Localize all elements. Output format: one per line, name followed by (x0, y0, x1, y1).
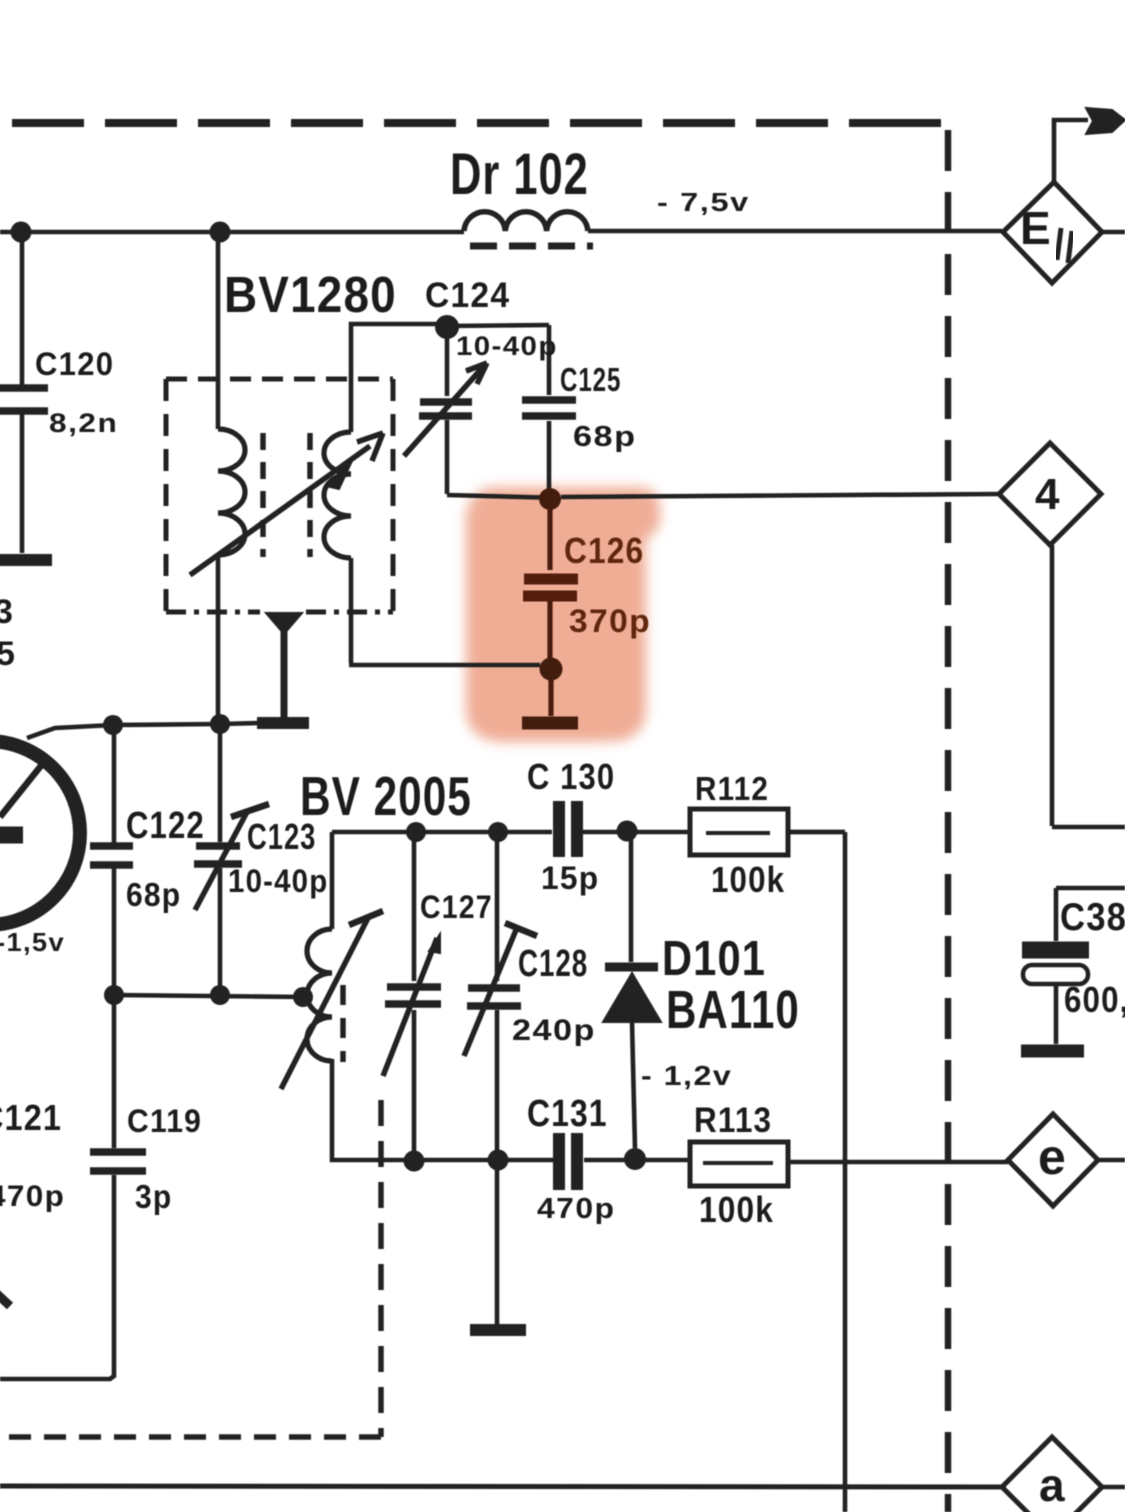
junction dot node base/C122 (103, 715, 123, 735)
capacitor C120 bottom lead (20, 414, 25, 553)
svg-text:C128: C128 (518, 943, 588, 985)
capacitor C38 negative plate (hollow) (1023, 965, 1088, 984)
junction dot C122 bottom (104, 985, 124, 1005)
svg-text:5: 5 (0, 635, 16, 673)
trimmer C128 arrow (464, 930, 516, 1056)
diode D101 bottom lead (632, 1022, 635, 1148)
capacitor C126 bottom lead (highlighted) (547, 601, 552, 660)
trimmer C127 leads (412, 832, 417, 1160)
svg-text:C121: C121 (0, 1098, 62, 1138)
connector diamond E (1003, 182, 1102, 283)
junction dot C127 bottom (404, 1151, 425, 1172)
variable-inductor arrow through BV1280 (190, 446, 370, 575)
capacitor C122 plates (90, 846, 133, 865)
svg-text:C126: C126 (564, 531, 644, 571)
junction dot C128 top (488, 822, 508, 842)
svg-text:- 1,2v: - 1,2v (641, 1061, 732, 1092)
terminal stub below C126 (highlighted) (548, 680, 553, 716)
svg-text:-1,5v: -1,5v (0, 928, 65, 957)
capacitor C122 bottom lead (112, 868, 117, 995)
diode D101 top lead (629, 831, 634, 962)
svg-text:C131: C131 (527, 1092, 608, 1134)
dashed chassis/frame line top (12, 119, 940, 127)
trimmer C127 plates (385, 987, 441, 1004)
wire BV1280 secondary bottom lead to C126 node (349, 558, 540, 665)
highlight marker blob around C126 (466, 487, 660, 742)
svg-text:BV1280: BV1280 (224, 267, 397, 324)
trimmer C124 arrow (404, 368, 482, 456)
trimmer C124 node dot (435, 315, 459, 339)
junction dot C123 bottom (210, 985, 230, 1005)
capacitor C120 plates (0, 388, 48, 411)
vertical bus wire right of R112 (843, 832, 848, 1512)
svg-text:C120: C120 (35, 346, 114, 383)
svg-text:C125: C125 (560, 362, 621, 399)
inductor BV1280 secondary winding (324, 432, 351, 558)
wire stub right of e (1098, 1158, 1125, 1163)
terminal bar below C126 (highlighted) (522, 717, 578, 730)
svg-text:C38: C38 (1060, 895, 1125, 938)
svg-text:C123: C123 (247, 816, 316, 857)
svg-text:3: 3 (0, 593, 14, 631)
junction dot coil tap (293, 987, 313, 1007)
dashed shield box BV1280 (166, 377, 393, 382)
diode D101 anode triangle (603, 973, 661, 1022)
BV2005 oscillator left lead top (330, 832, 335, 929)
wire bottom row C131/R113 left (332, 1158, 690, 1160)
junction dot C127 top (406, 822, 426, 842)
capacitor C119 leads (0, 995, 114, 1379)
svg-text:R112: R112 (695, 771, 769, 808)
svg-text:E: E (1020, 202, 1052, 254)
dashed box BV2005 right edge (378, 1100, 384, 1437)
capacitor C119 plates (90, 1152, 146, 1171)
transistor T (partial at left edge) (0, 741, 80, 925)
inductor BV2005 oscillator winding (307, 929, 332, 1061)
svg-text:240p: 240p (512, 1013, 596, 1047)
wire stub right of a (1102, 1485, 1125, 1490)
wire oscillator top rail (332, 830, 845, 835)
BV2005 oscillator left lead bottom (330, 1059, 335, 1158)
resistor R112 body (690, 809, 788, 855)
junction dot node -7,5v / C120 (11, 222, 32, 243)
arrow pointing right (to next sheet) (1086, 108, 1125, 134)
wire transistor to base node row (27, 725, 113, 738)
diode D101 cathode bar (605, 963, 658, 972)
junction dot C125/C126 node (highlighted) (539, 488, 561, 510)
trimmer C124 plates (419, 402, 472, 416)
wire base row to C123 node (113, 723, 258, 725)
inductor Dr102 (464, 212, 588, 231)
svg-text:Dr 102: Dr 102 (450, 142, 589, 206)
svg-text:10-40p: 10-40p (228, 863, 328, 899)
wire -7,5v rail right segment to connector E (588, 229, 1002, 234)
junction dot C128 bottom (488, 1150, 509, 1171)
wire -7,5v rail left segment (0, 230, 464, 235)
variable core arrow through oscillator coil (281, 918, 368, 1089)
capacitor C120 top lead (20, 232, 25, 385)
long wire bottom rail (0, 1486, 1006, 1487)
cut mark left edge (0, 1293, 10, 1306)
junction dot C126 bottom node (highlighted) (540, 658, 563, 681)
Dr102 core dashed line (470, 243, 593, 250)
capacitor C125 plates (522, 400, 576, 416)
svg-text:a: a (1039, 1459, 1066, 1511)
junction dot node -7,5v / BV1280 primary (210, 222, 231, 243)
capacitor C126 plates (highlighted) (523, 579, 578, 596)
ground symbol inside BV1280 box (266, 613, 302, 634)
capacitor C38 bottom lead (1054, 984, 1059, 1044)
wire stub right of E (1102, 230, 1125, 235)
trimmer C124 bottom lead (445, 420, 450, 494)
svg-text:3p: 3p (135, 1178, 172, 1216)
svg-text:C124: C124 (425, 276, 510, 315)
svg-text:600,: 600, (1064, 980, 1125, 1021)
capacitor C126 top lead (highlighted) (547, 508, 552, 570)
terminal bar below C120 (0, 554, 52, 566)
connector diamond a (partial) (1002, 1437, 1102, 1512)
wire lower row to oscillator coil tap (114, 995, 304, 997)
svg-text:470p: 470p (537, 1192, 615, 1224)
svg-text:e: e (1038, 1129, 1067, 1185)
trimmer C127 arrow (383, 938, 437, 1076)
svg-text:- 7,5v: - 7,5v (657, 188, 750, 217)
core dashed line next to oscillator coil (340, 985, 346, 1062)
svg-text:4: 4 (1035, 470, 1061, 519)
wire C128 below to terminal (495, 1160, 500, 1326)
wire BV1280 primary bottom lead (216, 555, 221, 724)
svg-text:68p: 68p (573, 419, 637, 452)
trimmer C123 bottom lead (218, 868, 223, 995)
capacitor C122 top lead (112, 725, 117, 843)
connector diamond e (1008, 1114, 1098, 1206)
wire R112 to vertical bus (788, 830, 845, 835)
svg-text:100k: 100k (711, 860, 785, 901)
wire C124 node to C125 corner (447, 325, 549, 326)
svg-text:370p: 370p (569, 603, 651, 639)
resistor R113 body (690, 1142, 788, 1186)
junction dot node base/C123 (210, 714, 230, 734)
capacitor C131 plates (559, 1133, 577, 1190)
junction dot D101/R113 node (624, 1148, 646, 1170)
wire C38 top lead from right edge (1056, 888, 1125, 941)
wire from diamond 4 down and right (1052, 545, 1125, 827)
svg-text:BV 2005: BV 2005 (300, 767, 472, 828)
svg-text:68p: 68p (126, 876, 181, 914)
svg-text:C119: C119 (127, 1103, 202, 1139)
svg-text:C122: C122 (126, 805, 205, 847)
trimmer C128 leads (495, 832, 500, 1160)
wire BV1280 primary top lead (216, 232, 221, 429)
trimmer C123 top lead (218, 724, 223, 842)
svg-text:8,2n: 8,2n (49, 408, 118, 438)
connector diamond 4 (999, 443, 1101, 545)
trimmer C123 arrow (195, 812, 247, 910)
dashed chassis/frame line right vertical (945, 130, 952, 1512)
svg-text:BA110: BA110 (666, 980, 800, 1040)
svg-text:10-40p: 10-40p (456, 330, 558, 361)
transformer core dashed lines (263, 433, 310, 557)
capacitor C130 plates (559, 801, 577, 857)
trimmer C128 plates (467, 988, 521, 1006)
dashed box BV2005 bottom edge (0, 1434, 381, 1440)
wire from E top to arrow (1054, 120, 1088, 184)
svg-text:C127: C127 (420, 891, 493, 926)
trimmer C123 plates (194, 846, 242, 864)
terminal bar below C128 (470, 1324, 526, 1336)
terminal bar below C38 (1021, 1045, 1084, 1058)
capacitor C38 positive plate (1022, 942, 1089, 959)
trimmer C124 top lead (445, 330, 450, 396)
svg-text:100k: 100k (699, 1190, 774, 1230)
connector E subscript bars (1057, 228, 1072, 263)
capacitor C125 bottom lead (547, 421, 552, 489)
wire node 4 row (447, 494, 999, 498)
wire R113 to connector e (788, 1160, 1008, 1165)
wire BV1280 secondary top lead to C124 node (351, 324, 436, 432)
svg-text:C 130: C 130 (527, 758, 615, 798)
svg-text:15p: 15p (541, 860, 599, 896)
junction dot D101 top (617, 821, 638, 842)
svg-text:470p: 470p (0, 1179, 65, 1213)
svg-text:R113: R113 (694, 1102, 772, 1141)
svg-text:D101: D101 (662, 931, 766, 986)
inductor BV1280 primary winding (218, 429, 245, 555)
capacitor C125 top lead (547, 325, 552, 395)
